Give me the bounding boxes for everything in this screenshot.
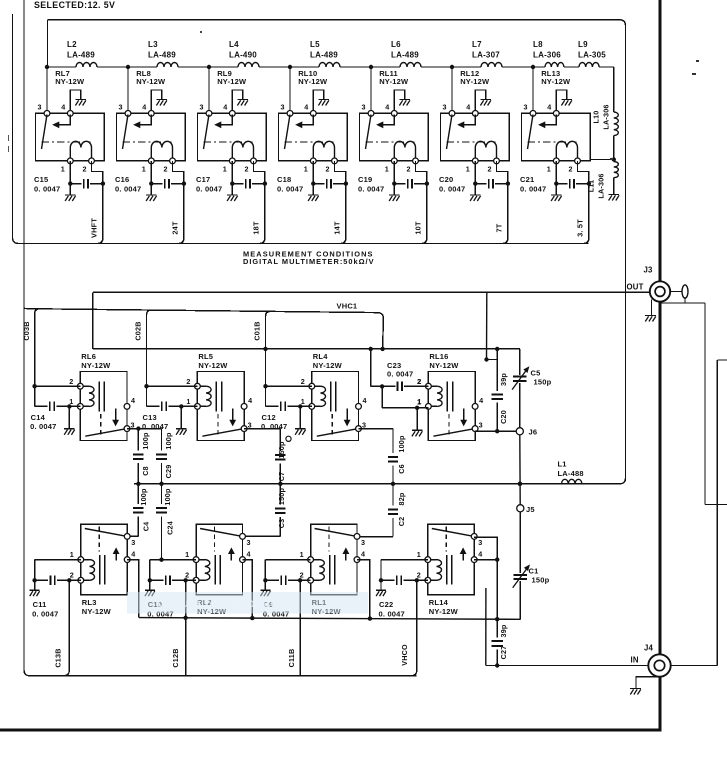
capacitor C14 0.0047 section (32, 384, 36, 388)
svg-text:100p: 100p (397, 435, 406, 453)
inductor L9 coil (579, 63, 599, 68)
svg-text:2: 2 (186, 377, 190, 386)
svg-text:1: 1 (417, 550, 421, 559)
svg-text:C02B: C02B (134, 321, 143, 340)
connector J6 (516, 428, 523, 435)
pin 2 RL8 (170, 158, 176, 164)
frame: outer thick border right (659, 0, 662, 731)
capacitor C10 0.0047 section (150, 559, 196, 561)
connector J3 (650, 281, 670, 301)
capacitor C3 150p column (279, 484, 281, 505)
tap wire 24T (179, 184, 184, 244)
svg-text:3: 3 (38, 103, 42, 112)
pin 3 RL10 (287, 111, 293, 117)
junction top bus node 209 (207, 65, 211, 69)
svg-text:2: 2 (83, 165, 87, 174)
relay RL8 box (117, 113, 186, 160)
pin 4 RL9 ground bracket (232, 90, 242, 113)
wire pin1 down to cap C18 (312, 161, 314, 184)
svg-text:C20: C20 (499, 410, 508, 424)
svg-text:100p: 100p (141, 432, 150, 450)
wire C24 join RL2 pin1 (159, 558, 163, 562)
svg-text:2: 2 (69, 377, 73, 386)
connector J4 (648, 654, 670, 676)
relay RL10 core dash-dot line (285, 141, 334, 143)
svg-text:LA-490: LA-490 (229, 51, 257, 60)
pin 4 RL10 (310, 111, 316, 117)
svg-text:C4: C4 (141, 522, 150, 532)
svg-text:2: 2 (417, 377, 421, 386)
pin 2 RL11 (413, 158, 419, 164)
wire pin1 down to cap C21 (555, 161, 557, 184)
pin 1 RL9 (229, 158, 235, 164)
svg-text:RL5: RL5 (198, 352, 213, 361)
svg-text:LA-306: LA-306 (533, 51, 561, 60)
svg-text:C19: C19 (358, 175, 372, 184)
ground for C10 (149, 580, 151, 590)
svg-text:L8: L8 (533, 40, 543, 49)
svg-text:VHC1: VHC1 (337, 302, 358, 311)
ground for C12 (299, 406, 301, 428)
junction top bus node 452 (450, 65, 454, 69)
svg-text:L1: L1 (558, 460, 567, 469)
relay RL5 link dashes (217, 414, 219, 438)
svg-text:1: 1 (61, 165, 65, 174)
relay RL12 core dash-dot line (447, 141, 496, 143)
svg-text:3. 5T: 3. 5T (575, 219, 584, 237)
wire J4 to right box (671, 665, 718, 667)
ground under C18 (312, 184, 314, 195)
tap wire VHFT (98, 184, 103, 244)
svg-text:4: 4 (131, 549, 135, 558)
pin 4 RL9 (229, 111, 235, 117)
svg-text:NY-12W: NY-12W (429, 607, 459, 616)
svg-text:0. 0047: 0. 0047 (379, 609, 405, 618)
ground for C14 (68, 406, 70, 428)
svg-text:3: 3 (247, 538, 251, 547)
svg-text:4: 4 (248, 396, 252, 405)
relay RL7 switch blade (42, 115, 48, 150)
frame: outer thick border bottom (0, 729, 661, 732)
pin 4 RL13 (553, 111, 559, 117)
junction top bus node 290 (288, 65, 292, 69)
svg-text:C24: C24 (165, 521, 174, 535)
relay RL5 arrow (232, 409, 234, 422)
pin 2 RL9 (251, 158, 257, 164)
svg-text:C22: C22 (379, 600, 393, 609)
wire OUT net horizontal (93, 291, 651, 293)
relay RL16 switch blade (433, 429, 475, 437)
wire stub C02B (147, 310, 152, 386)
svg-text:L4: L4 (229, 40, 239, 49)
svg-text:3: 3 (281, 103, 285, 112)
svg-text:4: 4 (142, 103, 146, 112)
wire RL14 pin3 riser (474, 537, 497, 619)
svg-text:4: 4 (547, 103, 551, 112)
svg-text:0. 0047: 0. 0047 (34, 185, 60, 194)
svg-text:LA-488: LA-488 (558, 469, 584, 478)
svg-text:1: 1 (385, 165, 389, 174)
inductor L11 vertical coil (614, 162, 619, 178)
ground under C19 (393, 184, 395, 195)
wire pin2 of RL9 to tap (254, 161, 265, 184)
pin 4 RL8 (148, 111, 154, 117)
svg-text:C11: C11 (33, 600, 47, 609)
svg-text:C18: C18 (277, 175, 291, 184)
svg-text:NY-12W: NY-12W (82, 607, 112, 616)
ground under C17 (231, 184, 233, 195)
svg-text:3: 3 (200, 103, 204, 112)
relay RL12 box (441, 113, 510, 160)
svg-text:3: 3 (131, 538, 135, 547)
trimmer C1 150p (519, 512, 521, 573)
relay RL3 arrow (115, 552, 117, 561)
svg-text:C2: C2 (397, 517, 406, 527)
relay RL4 core bars (330, 382, 332, 412)
pin 1 RL8 (148, 158, 154, 164)
relay RL8 armature arrow (139, 115, 151, 125)
pin 1 RL7 (67, 158, 73, 164)
tap wire 7T (503, 184, 508, 244)
svg-text:150p: 150p (277, 441, 286, 459)
relay RL4 box (312, 372, 359, 441)
svg-text:C1: C1 (529, 567, 539, 576)
pin 3 RL12 (449, 111, 455, 117)
capacitor C8 100p column (137, 429, 139, 451)
svg-text:C6: C6 (397, 464, 406, 474)
capacitor C22 0.0047 section (381, 559, 428, 561)
wire stub C03B (35, 309, 40, 386)
relay RL10 switch blade (285, 115, 291, 150)
svg-text:4: 4 (363, 396, 367, 405)
relay RL13 armature arrow (544, 115, 556, 125)
pin 1 RL13 (553, 158, 559, 164)
svg-text:DIGITAL MULTIMETER:50kΩ/V: DIGITAL MULTIMETER:50kΩ/V (243, 257, 375, 266)
relay RL5 coil (197, 385, 206, 387)
svg-text:C7: C7 (277, 472, 286, 482)
svg-text:150p: 150p (532, 576, 550, 585)
wire IN net horizontal (486, 665, 649, 667)
relay RL11 core dash-dot line (366, 141, 415, 143)
relay RL10 armature arrow (301, 115, 313, 125)
svg-text:0. 0047: 0. 0047 (261, 422, 287, 431)
wire top bus from box corner (47, 20, 49, 67)
wire RL2 pin4 riser (243, 560, 253, 619)
capacitor C11 0.0047 section (35, 559, 81, 561)
capacitor C20 0.0047 (475, 183, 486, 185)
pin 4 RL13 ground bracket (556, 90, 566, 113)
svg-text:100p: 100p (163, 488, 172, 506)
junction top bus node 533 (531, 65, 535, 69)
svg-text:LA-489: LA-489 (391, 51, 419, 60)
wire middle bus VHC1 net (93, 348, 520, 350)
relay RL2 arrow (230, 552, 232, 561)
junction bus dots (263, 347, 267, 351)
pin 2 RL13 (575, 158, 581, 164)
svg-text:24T: 24T (170, 221, 179, 235)
svg-text:NY-12W: NY-12W (429, 361, 459, 370)
svg-text:3: 3 (361, 538, 365, 547)
wire pin 3 of RL7 to bus (46, 67, 48, 113)
svg-text:3: 3 (362, 103, 366, 112)
svg-text:C5: C5 (531, 369, 541, 378)
svg-text:2: 2 (70, 571, 74, 580)
wire pin2 of RL13 to tap (578, 161, 589, 184)
relay RL2 switch blade (200, 529, 242, 537)
capacitor C4 100p column (137, 484, 139, 504)
svg-text:LA-489: LA-489 (67, 51, 95, 60)
relay RL14 core bars (446, 555, 448, 585)
svg-text:J6: J6 (529, 428, 538, 437)
relay RL14 link dashes (445, 527, 447, 552)
svg-text:C8: C8 (141, 466, 150, 476)
svg-text:100p: 100p (139, 488, 148, 506)
relay RL8 switch blade (123, 115, 129, 150)
relay RL3 core bars (99, 555, 101, 585)
pins RL16 (426, 383, 432, 389)
svg-text:NY-12W: NY-12W (217, 77, 247, 86)
pin 4 RL12 (472, 111, 478, 117)
svg-text:C27: C27 (499, 646, 508, 660)
relay RL3 box (81, 524, 127, 594)
svg-text:150p: 150p (534, 378, 552, 387)
capacitor C6 100p column (392, 429, 394, 453)
pins RL5 (195, 383, 201, 389)
svg-text:150p: 150p (277, 488, 286, 506)
svg-text:82p: 82p (397, 492, 406, 505)
relay RL5 core bars (215, 382, 217, 412)
wire pin1 down to cap C17 (231, 161, 233, 184)
feedthrough bead right of J3 (670, 291, 682, 293)
pin 2 RL10 (332, 158, 338, 164)
watermark band (127, 592, 368, 614)
pin 4 RL12 ground bracket (475, 90, 485, 113)
svg-text:3: 3 (524, 103, 528, 112)
svg-text:RL4: RL4 (313, 352, 328, 361)
pins RL2 (193, 557, 199, 563)
capacitor C18 0.0047 (313, 183, 324, 185)
capacitor C12 0.0047 section (263, 384, 267, 388)
svg-text:J4: J4 (644, 644, 654, 653)
pin 3 RL11 (368, 111, 374, 117)
svg-text:Cattura rettangolare: Cattura rettangolare (157, 596, 278, 610)
wire bus corner down to L10 (613, 67, 615, 112)
svg-text:10T: 10T (413, 221, 422, 235)
capacitor C15 0.0047 (70, 183, 81, 185)
svg-text:C11B: C11B (287, 649, 296, 668)
relay RL1 arrow (345, 552, 347, 561)
relay RL6 coil (80, 385, 89, 387)
svg-text:IN: IN (631, 656, 639, 665)
relay RL6 arrow (115, 409, 117, 422)
svg-text:C03B: C03B (22, 321, 31, 340)
right box outline (717, 359, 727, 361)
capacitor C20 39p (496, 360, 498, 391)
relay RL3 link dashes (98, 527, 100, 552)
ground below L11 (609, 194, 620, 196)
svg-text:1: 1 (223, 165, 227, 174)
svg-text:J3: J3 (644, 266, 654, 275)
svg-text:3: 3 (119, 103, 123, 112)
svg-text:1: 1 (301, 397, 305, 406)
relay RL5 box (197, 372, 244, 441)
ground under C16 (150, 184, 152, 195)
tap wire 18T (260, 184, 265, 244)
wire J6 to J5 (519, 435, 521, 505)
svg-text:14T: 14T (332, 221, 341, 235)
ground for C13 (180, 406, 182, 428)
relay RL12 coil (475, 141, 496, 161)
svg-text:4: 4 (361, 549, 365, 558)
pin 3 RL13 (530, 111, 536, 117)
svg-text:L11: L11 (587, 180, 596, 193)
lower rounded box outline (24, 0, 417, 676)
wire pin 3 of RL13 to bus (532, 67, 534, 113)
relay RL13 box (522, 113, 591, 160)
relay RL8 coil (151, 141, 172, 161)
relay RL16 coil (428, 385, 437, 387)
svg-text:C17: C17 (196, 175, 210, 184)
tap wire 3. 5T (584, 184, 589, 244)
wire pin1 down to cap C16 (150, 161, 152, 184)
svg-text:0. 0047: 0. 0047 (387, 370, 413, 379)
ground under C20 (474, 184, 476, 195)
svg-text:C23: C23 (387, 361, 401, 370)
svg-text:NY-12W: NY-12W (298, 77, 328, 86)
relay RL7 box (36, 113, 105, 160)
relay RL11 coil (394, 141, 415, 161)
svg-text:C01B: C01B (253, 321, 262, 340)
wire relay RL13 box to L10/L11 junction (591, 159, 614, 161)
wire pin1 down to cap C20 (474, 161, 476, 184)
relay RL9 coil (232, 141, 253, 161)
ground for RL16 pin1 (416, 408, 418, 430)
svg-text:J5: J5 (526, 505, 535, 514)
relay RL13 coil (556, 141, 577, 161)
svg-text:LA-306: LA-306 (597, 173, 606, 198)
capacitor C24 100p column (161, 484, 163, 504)
svg-text:1: 1 (466, 165, 470, 174)
relay RL1 switch blade (315, 529, 357, 537)
pin 1 RL11 (391, 158, 397, 164)
svg-text:4: 4 (304, 103, 308, 112)
svg-text:VHFT: VHFT (89, 218, 98, 238)
ground at J3 (651, 300, 653, 316)
pin 1 RL12 (472, 158, 478, 164)
svg-text:1: 1 (304, 165, 308, 174)
svg-text:1: 1 (300, 550, 304, 559)
svg-text:2: 2 (326, 165, 330, 174)
relay RL13 switch blade (528, 115, 534, 150)
svg-text:3: 3 (478, 538, 482, 547)
svg-text:NY-12W: NY-12W (81, 361, 111, 370)
ground for C11 (34, 580, 36, 590)
relay RL2 link dashes (214, 527, 216, 552)
svg-text:2: 2 (488, 165, 492, 174)
pin 2 RL7 (89, 158, 95, 164)
svg-text:NY-12W: NY-12W (541, 77, 571, 86)
svg-text:4: 4 (131, 396, 135, 405)
svg-text:1: 1 (185, 550, 189, 559)
inductor L8 coil (545, 63, 564, 68)
junction L10/L11 node (612, 157, 616, 161)
svg-text:2: 2 (301, 377, 305, 386)
relay RL16 core bars (446, 382, 448, 412)
svg-text:100p: 100p (164, 432, 173, 450)
relay RL14 box (428, 524, 474, 594)
pin 4 RL10 ground bracket (313, 90, 323, 113)
relay RL6 box (80, 372, 127, 441)
svg-text:0. 0047: 0. 0047 (358, 185, 384, 194)
svg-text:L10: L10 (592, 111, 601, 124)
svg-text:18T: 18T (251, 221, 260, 235)
svg-text:39p: 39p (499, 373, 508, 386)
svg-text:0. 0047: 0. 0047 (142, 422, 168, 431)
svg-text:L7: L7 (472, 40, 482, 49)
relay RL7 armature arrow (58, 115, 70, 125)
wire C12B (185, 580, 187, 676)
ground under C15 (69, 184, 71, 195)
wire lower bus (139, 618, 521, 620)
relay RL16 box (428, 372, 475, 441)
svg-text:SELECTED:12. 5V: SELECTED:12. 5V (34, 0, 115, 10)
svg-text:NY-12W: NY-12W (379, 77, 409, 86)
ground at J4 (636, 677, 660, 688)
svg-text:RL3: RL3 (82, 598, 97, 607)
wire RL4 pin3 to C6 (359, 428, 394, 430)
wire top bus horizontal (48, 66, 77, 68)
trimmer C5 150p (519, 349, 521, 375)
capacitor C9 0.0047 section (265, 559, 310, 561)
ground under C21 (555, 184, 557, 195)
svg-text:4: 4 (247, 549, 251, 558)
relay RL2 core bars (214, 555, 216, 585)
junction top bus node 128 (126, 65, 130, 69)
svg-text:C14: C14 (31, 413, 46, 422)
wire pin 3 of RL10 to bus (289, 67, 291, 113)
relay RL9 box (198, 113, 267, 160)
wire pin2 of RL11 to tap (416, 161, 427, 184)
wire C11B (299, 580, 301, 676)
ground for C22 (380, 580, 382, 590)
relay RL4 switch blade (317, 429, 359, 437)
wire VHCO (412, 580, 417, 675)
svg-text:4: 4 (466, 103, 470, 112)
pins RL3 (78, 557, 84, 563)
svg-text:C20: C20 (439, 175, 453, 184)
svg-text:2: 2 (569, 165, 573, 174)
wire pin2 of RL8 to tap (173, 161, 184, 184)
svg-text:LA-307: LA-307 (472, 51, 500, 60)
wire pin2 of RL12 to tap (497, 161, 508, 184)
svg-text:NY-12W: NY-12W (313, 361, 343, 370)
svg-text:7T: 7T (494, 223, 503, 232)
relay RL11 armature arrow (382, 115, 394, 125)
relay RL4 coil (312, 385, 321, 387)
svg-text:4: 4 (478, 549, 482, 558)
wire pin1 down to cap C19 (393, 161, 395, 184)
relay RL16 arrow (463, 409, 465, 422)
relay RL1 box (311, 524, 357, 594)
relay RL16 link dashes (448, 414, 450, 438)
wire stub C01B (266, 311, 271, 386)
wire pin 3 of RL9 to bus (208, 67, 210, 113)
inductor L10 vertical coil (614, 112, 619, 136)
pin 3 RL9 (206, 111, 212, 117)
svg-text:0. 0047: 0. 0047 (30, 422, 56, 431)
pins RL4 (309, 383, 315, 389)
wire C13B (64, 580, 69, 675)
